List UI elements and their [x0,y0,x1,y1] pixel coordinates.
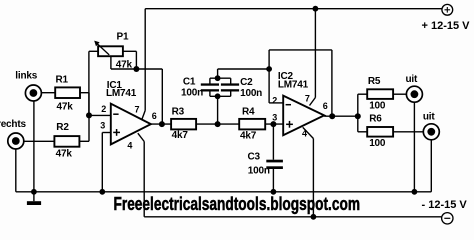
wire cap bus top [210,78,231,84]
wire R3 to R4 [196,123,239,125]
svg-text:100n: 100n [181,88,203,99]
svg-text:R6: R6 [369,113,382,124]
node rechts input connector [0,119,54,192]
svg-text:2: 2 [272,96,277,106]
svg-text:4k7: 4k7 [172,130,189,141]
wire P1 right down [123,51,136,69]
node filter junction [215,121,221,127]
wire R2 out [79,115,89,141]
svg-text:2: 2 [101,104,106,114]
svg-text:7: 7 [135,105,140,115]
svg-text:Freeelectricalsandtools.blogsp: Freeelectricalsandtools.blogspot.com [114,194,361,214]
node summing junction [86,112,92,118]
wire bottom -V rail [144,216,441,218]
wire cap top feed [218,69,270,78]
wire ground rail [16,191,432,193]
svg-text:7: 7 [305,94,310,104]
node feedback tee [266,66,272,72]
wire links to R1 [41,92,55,94]
node cap top junction [215,75,221,81]
svg-text:3: 3 [100,121,105,131]
node IC1 output junction [159,121,165,127]
wire rechts to R2 [24,140,55,142]
svg-text:rechts: rechts [0,119,26,130]
minus supply terminal [422,199,468,224]
svg-text:uit: uit [423,112,435,123]
svg-text:C2: C2 [240,77,253,88]
resistor R1 [55,75,80,113]
capacitor C3 [248,124,283,192]
svg-text:P1: P1 [117,32,129,43]
wire links ground drop [33,101,35,192]
node IC2 output junction [329,113,335,119]
wire IC1 output [151,123,171,125]
wire IC1 pin7 supply [142,9,145,120]
svg-text:links: links [15,71,37,82]
node output branch junction [355,113,361,119]
potentiometer P1 [94,32,132,71]
wire R4 to IC2 pin3 [265,123,283,125]
wire P1 left to summing node [89,51,98,115]
wire top +V rail [145,8,442,10]
wire IC2 output [324,115,358,117]
node pin4 rail junction [311,214,317,220]
wire IC2 pin4 supply [303,127,314,217]
svg-text:6: 6 [323,101,328,111]
svg-text:C1: C1 [183,76,196,87]
svg-text:LM741: LM741 [106,88,137,99]
capacitor C2 [221,77,262,99]
wire IC1 pin3 to ground [102,133,111,192]
wire R1 out [80,93,89,116]
svg-text:LM741: LM741 [278,80,309,91]
svg-text:R2: R2 [56,122,69,133]
resistor R5 [358,76,406,112]
wire IC2 feedback loop [269,50,332,116]
svg-text:3: 3 [272,112,277,122]
node cap bottom junction [215,93,221,99]
svg-text:6: 6 [152,111,157,121]
node junction uit top on ground rail [412,189,418,195]
svg-text:4: 4 [127,140,132,150]
plus supply terminal [422,4,471,32]
node junction C3 on ground rail [271,189,277,195]
svg-text:47k: 47k [57,102,74,113]
svg-text:+ 12-15 V: + 12-15 V [422,20,471,32]
node links input connector [15,71,55,192]
resistor R6 [358,113,424,148]
svg-text:100: 100 [369,100,386,111]
ground symbol [27,189,41,205]
resistor R2 [54,122,79,160]
wire cap bus bottom [210,91,231,96]
svg-text:uit: uit [406,74,418,85]
node uit top connector [406,74,423,192]
wire IC1 pin4 supply [138,133,144,217]
svg-text:R1: R1 [56,75,69,86]
wire output branch vertical [357,94,359,132]
svg-text:R3: R3 [172,106,185,117]
node pin7 rail junction [313,6,319,12]
wire feedback to IC1 output [136,69,162,124]
op-amp IC1 [100,80,157,150]
resistor R4 [239,106,265,141]
wire IC2 pin7 supply [310,9,316,106]
node pin3 junction [270,121,276,127]
op-amp IC2 [272,71,328,138]
wire cap bottom to filter node [217,96,219,124]
svg-text:47k: 47k [56,149,73,160]
node uit bottom connector [423,112,439,192]
resistor R3 [171,106,196,141]
node P1 feedback junction [133,66,139,72]
node junction IC1 pin3 on ground rail [99,189,105,195]
svg-text:- 12-15 V: - 12-15 V [422,199,468,211]
svg-text:R5: R5 [368,76,381,87]
svg-text:R4: R4 [242,106,255,117]
svg-text:100n: 100n [240,88,262,99]
wire rechts ground drop [15,149,17,192]
capacitor C1 [181,76,219,98]
wire junction to pin2 [89,114,111,116]
wire P1 wiper tap [111,56,136,69]
svg-text:4k7: 4k7 [240,130,257,141]
svg-text:C3: C3 [248,152,261,163]
svg-text:100: 100 [369,138,386,149]
